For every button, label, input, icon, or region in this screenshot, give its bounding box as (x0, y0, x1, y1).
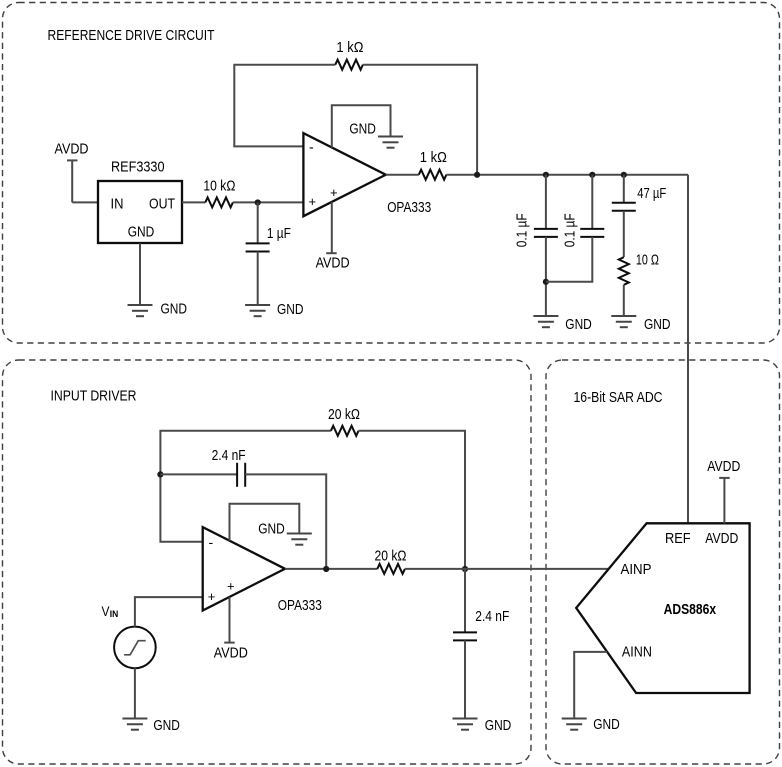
svg-text:-: - (309, 139, 314, 155)
svg-text:OUT: OUT (149, 196, 175, 213)
node junction feedback (462, 566, 468, 572)
capacitor 2.4 nF (C6 shunt) (453, 632, 477, 640)
svg-text:GND: GND (593, 716, 620, 733)
svg-text:+: + (330, 185, 338, 200)
svg-text:OPA333: OPA333 (387, 199, 431, 216)
svg-text:REF: REF (665, 530, 691, 547)
svg-text:0.1 µF: 0.1 µF (561, 213, 578, 247)
16-bit SAR ADC boundary box (546, 360, 780, 764)
resistor 20 kΩ series (377, 564, 405, 574)
wire AINP net (405, 568, 609, 570)
svg-text:AVDD: AVDD (316, 255, 350, 272)
ground symbol (V_IN) (122, 719, 147, 730)
wire resistor to op-amp + input (233, 201, 304, 203)
svg-text:-: - (209, 534, 214, 550)
svg-text:20 kΩ: 20 kΩ (328, 406, 360, 423)
svg-text:IN: IN (111, 196, 124, 213)
node junction C3 (589, 172, 595, 178)
wire U2 V+ to AVDD (331, 202, 333, 253)
svg-text:GND: GND (258, 521, 285, 538)
svg-text:GND: GND (644, 316, 671, 333)
ground symbol (C6) (453, 719, 478, 730)
reference drive circuit boundary box (3, 3, 780, 344)
svg-text:0.1 µF: 0.1 µF (513, 213, 530, 247)
ground symbol (REF3330) (128, 305, 153, 316)
wire C3 bottom to ground tie (546, 237, 592, 282)
node junction feedback (474, 172, 480, 178)
resistor 10 kΩ (205, 197, 233, 207)
resistor 10 Ω (R4) (619, 257, 629, 285)
svg-text:INPUT DRIVER: INPUT DRIVER (51, 388, 137, 405)
svg-text:GND: GND (565, 316, 592, 333)
svg-text:2.4 nF: 2.4 nF (475, 608, 509, 625)
ADC U4 ADS886x (576, 523, 749, 693)
op-amp U2 OPA333 (303, 133, 385, 216)
wire U2 V- to ground (332, 105, 391, 147)
wire feedback left leg U2 (234, 65, 335, 147)
AVDD supply terminal (U3) (224, 642, 235, 644)
svg-text:47 µF: 47 µF (637, 185, 666, 202)
wire feedback right leg U3 (359, 431, 466, 569)
svg-text:1 kΩ: 1 kΩ (336, 39, 363, 56)
capacitor 0.1 µF (C2) (534, 229, 558, 237)
svg-text:GND: GND (277, 301, 304, 318)
resistor 1 kΩ feedback (335, 60, 363, 70)
wire REF net to capacitor C3 (591, 175, 593, 229)
wire AINN to ground (574, 652, 607, 719)
AVDD supply terminal (U2) (326, 252, 337, 254)
capacitor 1 µF (246, 243, 270, 251)
label V_IN (102, 604, 119, 619)
svg-text:+: + (208, 589, 216, 604)
wire C2 bottom to ground (545, 237, 547, 316)
svg-text:V: V (102, 604, 110, 619)
node junction feedback/C5 (157, 471, 163, 477)
svg-text:AINN: AINN (622, 644, 652, 661)
wire REF3330 GND pin down (139, 243, 141, 305)
svg-text:AVDD: AVDD (55, 141, 89, 158)
svg-text:1 kΩ: 1 kΩ (420, 149, 447, 166)
svg-text:10 Ω: 10 Ω (636, 252, 659, 269)
node junction C4 (621, 172, 627, 178)
svg-text:REFERENCE DRIVE CIRCUIT: REFERENCE DRIVE CIRCUIT (48, 27, 215, 44)
svg-text:IN: IN (110, 609, 119, 619)
svg-text:GND: GND (485, 717, 512, 734)
node junction C2/C3 ground tie (543, 279, 549, 285)
source V_IN (114, 627, 156, 669)
wire R4 to ground (623, 285, 625, 316)
wire V_IN to ground (134, 668, 136, 718)
capacitor 0.1 µF (C3) (580, 229, 604, 237)
wire node to capacitor C6 (464, 569, 466, 633)
svg-text:GND: GND (349, 121, 376, 138)
ground symbol (U2 V-) (378, 137, 403, 148)
wire REF net to capacitor C4 (623, 175, 625, 203)
svg-text:GND: GND (161, 301, 188, 318)
svg-text:REF3330: REF3330 (111, 159, 165, 176)
wire U3 V- to ground (230, 504, 300, 541)
wire capacitor to ground (257, 252, 259, 306)
AVDD supply terminal (ADC) (719, 478, 730, 523)
wire REF net down to ADC REF pin (687, 175, 689, 524)
voltage reference U1 REF3330 (98, 181, 182, 243)
ground symbol (C2 C3) (533, 316, 558, 327)
wire C4 to resistor R4 (623, 211, 625, 257)
svg-text:AINP: AINP (621, 561, 652, 578)
ground symbol (AINN) (562, 719, 587, 730)
svg-text:GND: GND (128, 223, 155, 240)
wire feedback left leg U3 (160, 431, 331, 542)
ground symbol (1 µF) (245, 305, 270, 316)
AVDD supply terminal (REF3330 input) (67, 160, 78, 202)
wire U2 output to resistor (386, 174, 419, 176)
wire REF net horizontal (446, 174, 688, 176)
wire node to capacitor (257, 202, 259, 243)
wire feedback right leg U2 (363, 65, 477, 175)
svg-text:GND: GND (153, 717, 180, 734)
capacitor 2.4 nF (C5 feedback) (237, 463, 245, 487)
node junction at 1 µF cap (255, 199, 261, 205)
wire U3 V+ to AVDD (229, 597, 231, 643)
svg-text:1 µF: 1 µF (267, 225, 291, 242)
wire REF3330 OUT to resistor (182, 201, 205, 203)
op-amp U3 OPA333 (203, 527, 285, 610)
svg-text:+: + (227, 579, 235, 594)
wire C6 to ground (464, 640, 466, 718)
wire U3 output (285, 568, 377, 570)
resistor 20 kΩ feedback (331, 426, 359, 436)
wire V_IN to U3 + input (135, 597, 203, 627)
svg-text:20 kΩ: 20 kΩ (375, 547, 407, 564)
svg-text:AVDD: AVDD (214, 644, 248, 661)
wire AVDD to REF3330 IN pin (72, 201, 98, 203)
ground symbol (R4) (611, 316, 636, 327)
svg-text:OPA333: OPA333 (278, 597, 322, 614)
ground symbol (U3 V-) (287, 534, 312, 545)
svg-text:2.4 nF: 2.4 nF (212, 447, 246, 464)
svg-text:16-Bit SAR ADC: 16-Bit SAR ADC (574, 389, 663, 406)
svg-text:AVDD: AVDD (707, 458, 740, 475)
resistor 1 kΩ output (419, 170, 447, 180)
wire C5 left lead (160, 473, 237, 475)
node junction C5 (323, 566, 329, 572)
svg-text:10 kΩ: 10 kΩ (203, 177, 235, 194)
wire C5 right lead to output (245, 474, 326, 569)
svg-text:ADS886x: ADS886x (664, 601, 717, 618)
svg-text:+: + (309, 194, 317, 209)
capacitor 47 µF (C4) (612, 203, 636, 211)
input driver boundary box (3, 360, 532, 764)
wire REF net to capacitor C2 (545, 175, 547, 229)
node junction C2 (543, 172, 549, 178)
svg-text:AVDD: AVDD (705, 530, 738, 547)
